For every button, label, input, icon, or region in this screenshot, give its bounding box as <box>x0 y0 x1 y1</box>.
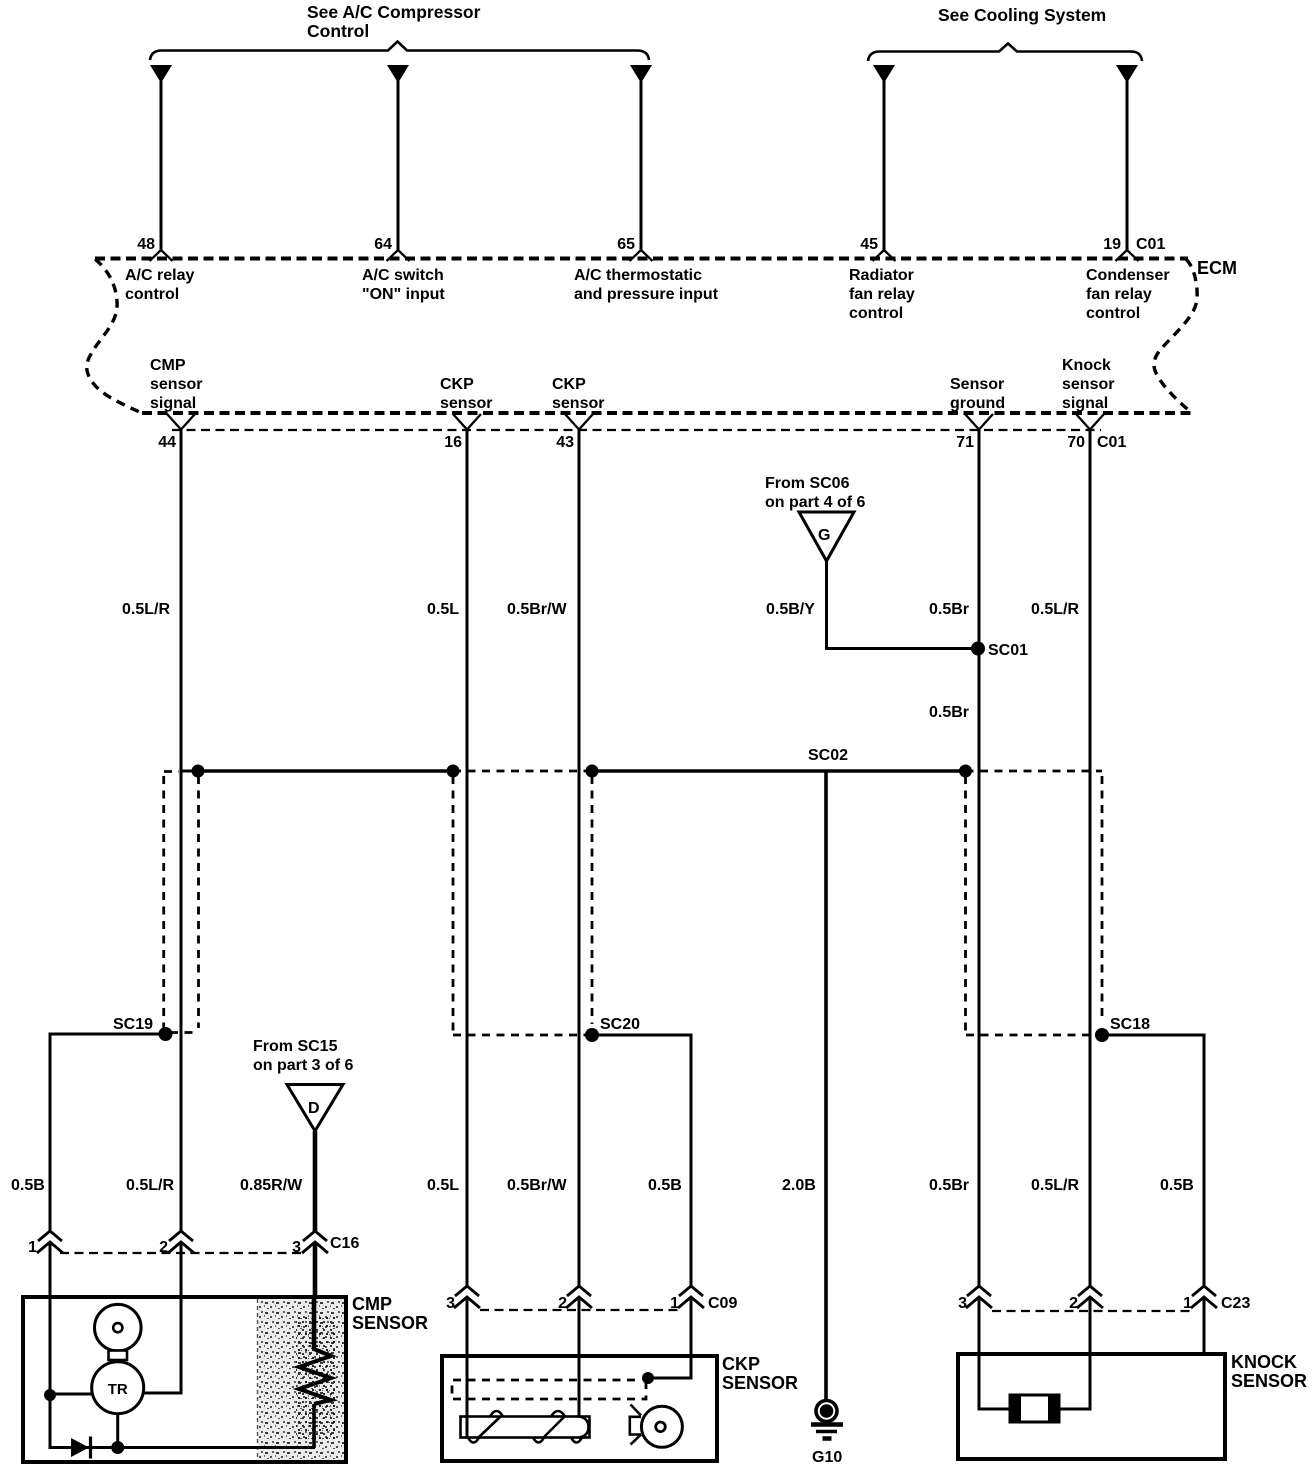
knock piezo element <box>1010 1395 1059 1422</box>
wire: pin3 C23 into knock element <box>979 1297 1010 1409</box>
pin 64 <box>387 250 410 261</box>
svg-text:C16: C16 <box>330 1235 359 1252</box>
wire: stub pin44 wire to bus junction <box>181 770 198 773</box>
wire: SC02 bus dashed shield top (middle) <box>453 770 592 773</box>
junction on CMP bottom wire <box>111 1441 124 1454</box>
svg-text:D: D <box>308 1100 320 1117</box>
junction inside CMP <box>44 1389 56 1401</box>
junction: shield tie in CKP <box>642 1372 654 1384</box>
junction on bus at CMP branch <box>192 765 205 778</box>
svg-text:SC18: SC18 <box>1110 1016 1150 1033</box>
wire: pin2 C23 into knock element <box>1059 1297 1090 1409</box>
pin 1 C09 <box>679 1286 703 1296</box>
transistor TR <box>92 1362 144 1414</box>
pin 19 connector C01 <box>1116 250 1139 261</box>
svg-text:3: 3 <box>446 1295 455 1312</box>
svg-text:A/C thermostatic: A/C thermostatic <box>574 267 702 284</box>
svg-text:C01: C01 <box>1136 236 1165 253</box>
pin 3 C09 <box>455 1286 479 1296</box>
svg-text:3: 3 <box>958 1295 967 1312</box>
svg-text:ground: ground <box>950 395 1005 412</box>
wire: pin1 C09 to internal shield <box>648 1297 691 1378</box>
wire: junction to transistor TR <box>50 1393 93 1396</box>
svg-text:signal: signal <box>1062 395 1108 412</box>
wire: to A/C switch (arrowhead) <box>387 65 409 83</box>
svg-text:0.5L/R: 0.5L/R <box>1031 1177 1079 1194</box>
wire: SC02 bus dashed shield top (right) <box>966 770 1103 773</box>
svg-text:C01: C01 <box>1097 434 1126 451</box>
wire: pin1 C16 into CMP sensor <box>49 1242 52 1297</box>
svg-text:0.5Br/W: 0.5Br/W <box>507 601 567 618</box>
svg-text:CKP: CKP <box>552 376 586 393</box>
wire: TR emitter down <box>116 1414 119 1448</box>
svg-text:64: 64 <box>374 236 392 253</box>
svg-text:1: 1 <box>670 1295 679 1312</box>
svg-text:45: 45 <box>860 236 878 253</box>
svg-text:signal: signal <box>150 395 196 412</box>
connector C23 dashed row <box>992 1310 1190 1312</box>
svg-text:CMP: CMP <box>150 357 186 374</box>
pin 48 <box>150 250 173 261</box>
svg-text:CMP: CMP <box>352 1294 392 1314</box>
svg-text:G: G <box>818 527 830 544</box>
CMP sensor box <box>23 1297 346 1462</box>
shield (dashed) around CKP wires <box>452 776 455 1031</box>
knock sensor box <box>958 1354 1225 1459</box>
junction on bus at sensor ground <box>959 765 972 778</box>
svg-text:44: 44 <box>158 434 176 451</box>
svg-text:19: 19 <box>1103 236 1121 253</box>
svg-text:SC01: SC01 <box>988 642 1028 659</box>
svg-text:C23: C23 <box>1221 1295 1250 1312</box>
wire: 0.5L/R CMP sensor signal (pin 44 down) <box>180 430 183 1231</box>
pin 70 connector C01 <box>1076 414 1104 430</box>
svg-text:G10: G10 <box>812 1449 842 1466</box>
svg-text:sensor: sensor <box>440 395 492 412</box>
CKP pole piece <box>630 1417 641 1435</box>
ECM outline right torn edge <box>1154 259 1197 413</box>
neck between hall element and TR <box>109 1351 128 1361</box>
wire: to condenser fan relay (arrowhead) <box>1116 65 1138 83</box>
junction on bus left of CKP wires <box>447 765 460 778</box>
svg-text:See A/C Compressor: See A/C Compressor <box>307 2 481 22</box>
svg-text:0.5L/R: 0.5L/R <box>122 601 170 618</box>
wire: pin3 C09 into coil <box>466 1297 469 1437</box>
svg-text:control: control <box>125 286 179 303</box>
svg-text:0.5B: 0.5B <box>1160 1177 1194 1194</box>
svg-text:71: 71 <box>956 434 974 451</box>
wire: 0.5L CKP sensor (pin 16 down) <box>466 430 469 1286</box>
svg-text:3: 3 <box>292 1239 301 1256</box>
CKP reluctor wheel <box>641 1406 682 1447</box>
svg-text:0.5B: 0.5B <box>648 1177 682 1194</box>
svg-text:0.5Br/W: 0.5Br/W <box>507 1177 567 1194</box>
svg-text:Knock: Knock <box>1062 357 1111 374</box>
pin 3 C16 <box>303 1231 327 1241</box>
svg-text:ECM: ECM <box>1197 258 1237 278</box>
pin 71 <box>965 414 993 430</box>
svg-text:CKP: CKP <box>440 376 474 393</box>
svg-text:2: 2 <box>1069 1295 1078 1312</box>
svg-text:on part 4 of 6: on part 4 of 6 <box>765 494 866 511</box>
svg-text:From SC15: From SC15 <box>253 1038 338 1055</box>
wire: pin2 C09 into coil <box>578 1297 581 1416</box>
ECM outline bottom edge <box>142 411 1192 415</box>
off-page connector D <box>287 1085 343 1132</box>
svg-text:43: 43 <box>556 434 574 451</box>
svg-text:0.5B/Y: 0.5B/Y <box>766 601 815 618</box>
svg-text:0.5B: 0.5B <box>11 1177 45 1194</box>
svg-text:TR: TR <box>108 1381 128 1398</box>
ECM outline top edge <box>95 257 1188 261</box>
svg-text:Condenser: Condenser <box>1086 267 1170 284</box>
wire: 0.5B/Y from connector G to SC01 <box>827 561 979 649</box>
junction on bus right of CKP wires <box>586 765 599 778</box>
svg-text:A/C relay: A/C relay <box>125 267 194 284</box>
svg-text:fan relay: fan relay <box>1086 286 1152 303</box>
svg-text:control: control <box>849 305 903 322</box>
svg-text:on part 3 of 6: on part 3 of 6 <box>253 1057 354 1074</box>
wire: 0.5B shield drain from SC18 <box>1102 1035 1204 1286</box>
svg-text:0.5L: 0.5L <box>427 601 459 618</box>
svg-text:48: 48 <box>137 236 155 253</box>
pin 1 C23 <box>1192 1286 1216 1296</box>
svg-text:C09: C09 <box>708 1295 737 1312</box>
svg-text:65: 65 <box>617 236 635 253</box>
svg-text:Sensor: Sensor <box>950 376 1004 393</box>
svg-text:SC19: SC19 <box>113 1016 153 1033</box>
wire: pin3 C16 into CMP sensor <box>313 1242 318 1300</box>
svg-text:sensor: sensor <box>552 395 604 412</box>
brace: cooling system group <box>868 44 1142 62</box>
svg-text:2.0B: 2.0B <box>782 1177 816 1194</box>
wire: SC02 bus solid left segment <box>198 769 453 773</box>
svg-text:control: control <box>1086 305 1140 322</box>
off-page connector G <box>799 512 854 561</box>
pin 2 C09 <box>567 1286 591 1296</box>
wire: 0.85R/W from connector D <box>313 1131 318 1231</box>
svg-text:70: 70 <box>1067 434 1085 451</box>
splice SC18 (shield drain) <box>1095 1028 1109 1042</box>
svg-text:0.5Br: 0.5Br <box>929 1177 969 1194</box>
wire: 0.5Br sensor ground (pin 71 down) <box>978 430 981 1286</box>
wire: 0.5Br/W CKP sensor (pin 43 down) <box>578 430 581 1286</box>
wire: 2.0B ground wire from SC02 to G10 <box>824 771 828 1400</box>
wire: pin1 C23 to knock sensor case <box>1203 1297 1206 1356</box>
svg-text:2: 2 <box>558 1295 567 1312</box>
svg-text:A/C switch: A/C switch <box>362 267 444 284</box>
CMP sensor shaded area <box>258 1299 344 1460</box>
ECM outline left torn edge <box>87 259 142 413</box>
svg-text:SC20: SC20 <box>600 1016 640 1033</box>
wire: 0.5L/R knock sensor signal (pin 70 down) <box>1089 430 1092 1286</box>
svg-text:SENSOR: SENSOR <box>1231 1371 1307 1391</box>
wire: to A/C thermostatic input (arrowhead) <box>630 65 652 83</box>
ECM connector row C01 (dashed) <box>172 429 1101 431</box>
svg-text:2: 2 <box>159 1239 168 1256</box>
svg-text:KNOCK: KNOCK <box>1231 1352 1297 1372</box>
shield (dashed) around CMP signal wire <box>164 770 179 773</box>
brace: A/C compressor group <box>150 42 649 61</box>
wire: CMP bottom rail <box>50 1395 315 1448</box>
svg-text:SENSOR: SENSOR <box>352 1313 428 1333</box>
pin 43 <box>565 414 593 430</box>
CKP pickup coil core <box>461 1417 590 1438</box>
CKP sensor box <box>442 1356 717 1461</box>
diode <box>71 1438 89 1457</box>
pin 1 C16 <box>38 1231 62 1241</box>
pin 3 C23 <box>967 1286 991 1296</box>
resistor (CMP bias) <box>296 1315 336 1440</box>
splice SC20 (shield drain) <box>585 1028 599 1042</box>
connector C09 dashed row <box>480 1309 678 1311</box>
wire: 0.5B shield drain from SC19 <box>50 1034 166 1231</box>
svg-text:0.85R/W: 0.85R/W <box>240 1177 303 1194</box>
wire: SC02 bus solid right segment <box>592 769 966 773</box>
pin 2 C23 <box>1078 1286 1102 1296</box>
svg-text:and pressure input: and pressure input <box>574 286 719 303</box>
internal shield (dashed) in CKP <box>452 1380 646 1399</box>
svg-text:0.5L: 0.5L <box>427 1177 459 1194</box>
svg-text:From SC06: From SC06 <box>765 475 850 492</box>
splice SC01 <box>971 642 985 656</box>
splice SC19 (shield drain) <box>159 1027 173 1041</box>
svg-text:0.5Br: 0.5Br <box>929 601 969 618</box>
wire: 0.5B shield drain from SC20 <box>592 1035 691 1286</box>
svg-text:Control: Control <box>307 21 369 41</box>
shield (dashed) around sensor ground / knock wires <box>964 776 967 1031</box>
pin 44 <box>167 414 195 430</box>
svg-text:See Cooling System: See Cooling System <box>938 5 1106 25</box>
pin 16 <box>453 414 481 430</box>
svg-text:CKP: CKP <box>722 1354 760 1374</box>
svg-text:0.5L/R: 0.5L/R <box>126 1177 174 1194</box>
wire: to radiator fan relay (arrowhead) <box>873 65 895 83</box>
svg-text:16: 16 <box>444 434 462 451</box>
pin 2 C16 <box>169 1231 193 1241</box>
svg-text:sensor: sensor <box>1062 376 1114 393</box>
connector C16 dashed row <box>60 1252 305 1254</box>
svg-text:Radiator: Radiator <box>849 267 914 284</box>
pin 45 <box>873 250 896 261</box>
svg-text:sensor: sensor <box>150 376 202 393</box>
svg-text:1: 1 <box>28 1239 37 1256</box>
ground G10 <box>816 1401 837 1422</box>
svg-text:SC02: SC02 <box>808 747 848 764</box>
svg-text:1: 1 <box>1183 1295 1192 1312</box>
svg-text:0.5L/R: 0.5L/R <box>1031 601 1079 618</box>
wire: inside CMP from pin 1 <box>49 1297 52 1395</box>
wire: to A/C relay (arrowhead) <box>150 65 172 83</box>
pin 65 <box>630 250 653 261</box>
hall element (pickup) <box>95 1304 142 1351</box>
CKP coil winding <box>468 1438 479 1443</box>
svg-text:fan relay: fan relay <box>849 286 915 303</box>
svg-text:"ON" input: "ON" input <box>362 286 445 303</box>
wire: pin2 C16 into CMP sensor <box>180 1242 183 1297</box>
svg-text:SENSOR: SENSOR <box>722 1373 798 1393</box>
wire: inside CMP from pin 2 to TR <box>143 1297 181 1393</box>
svg-text:0.5Br: 0.5Br <box>929 704 969 721</box>
